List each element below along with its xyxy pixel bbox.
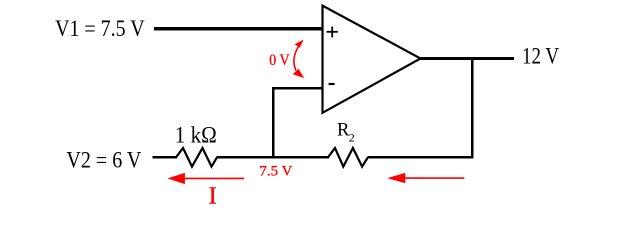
svg-text:I: I: [209, 183, 217, 209]
op-amp U1: [323, 6, 421, 113]
svg-text:7.5 V: 7.5 V: [259, 164, 292, 180]
wire R2 to feedback: [368, 156, 474, 159]
resistor R1 zigzag: [176, 148, 217, 167]
wire non-inverting input: [154, 27, 323, 30]
svg-text:2: 2: [349, 131, 355, 145]
annotation current arrow left (red): [168, 173, 245, 184]
svg-text:V2 = 6 V: V2 = 6 V: [66, 148, 141, 173]
wire from V2: [153, 156, 178, 159]
svg-text:0 V: 0 V: [269, 52, 290, 69]
wire inverting input: [272, 87, 323, 90]
wire node A to R2: [217, 156, 330, 159]
wire output: [420, 57, 514, 60]
op-amp minus pin marker: [329, 83, 335, 85]
wire node A vertical: [272, 87, 275, 159]
svg-text:V1 = 7.5 V: V1 = 7.5 V: [55, 16, 145, 41]
wire feedback vertical: [471, 59, 474, 159]
op-amp plus pin marker: [327, 27, 338, 38]
resistor R2 zigzag: [328, 148, 368, 167]
svg-text:1 kΩ: 1 kΩ: [175, 123, 217, 148]
annotation current arrow right (red): [387, 173, 464, 183]
svg-text:12 V: 12 V: [522, 44, 559, 69]
annotation curved voltage arrow (red): [293, 40, 304, 78]
